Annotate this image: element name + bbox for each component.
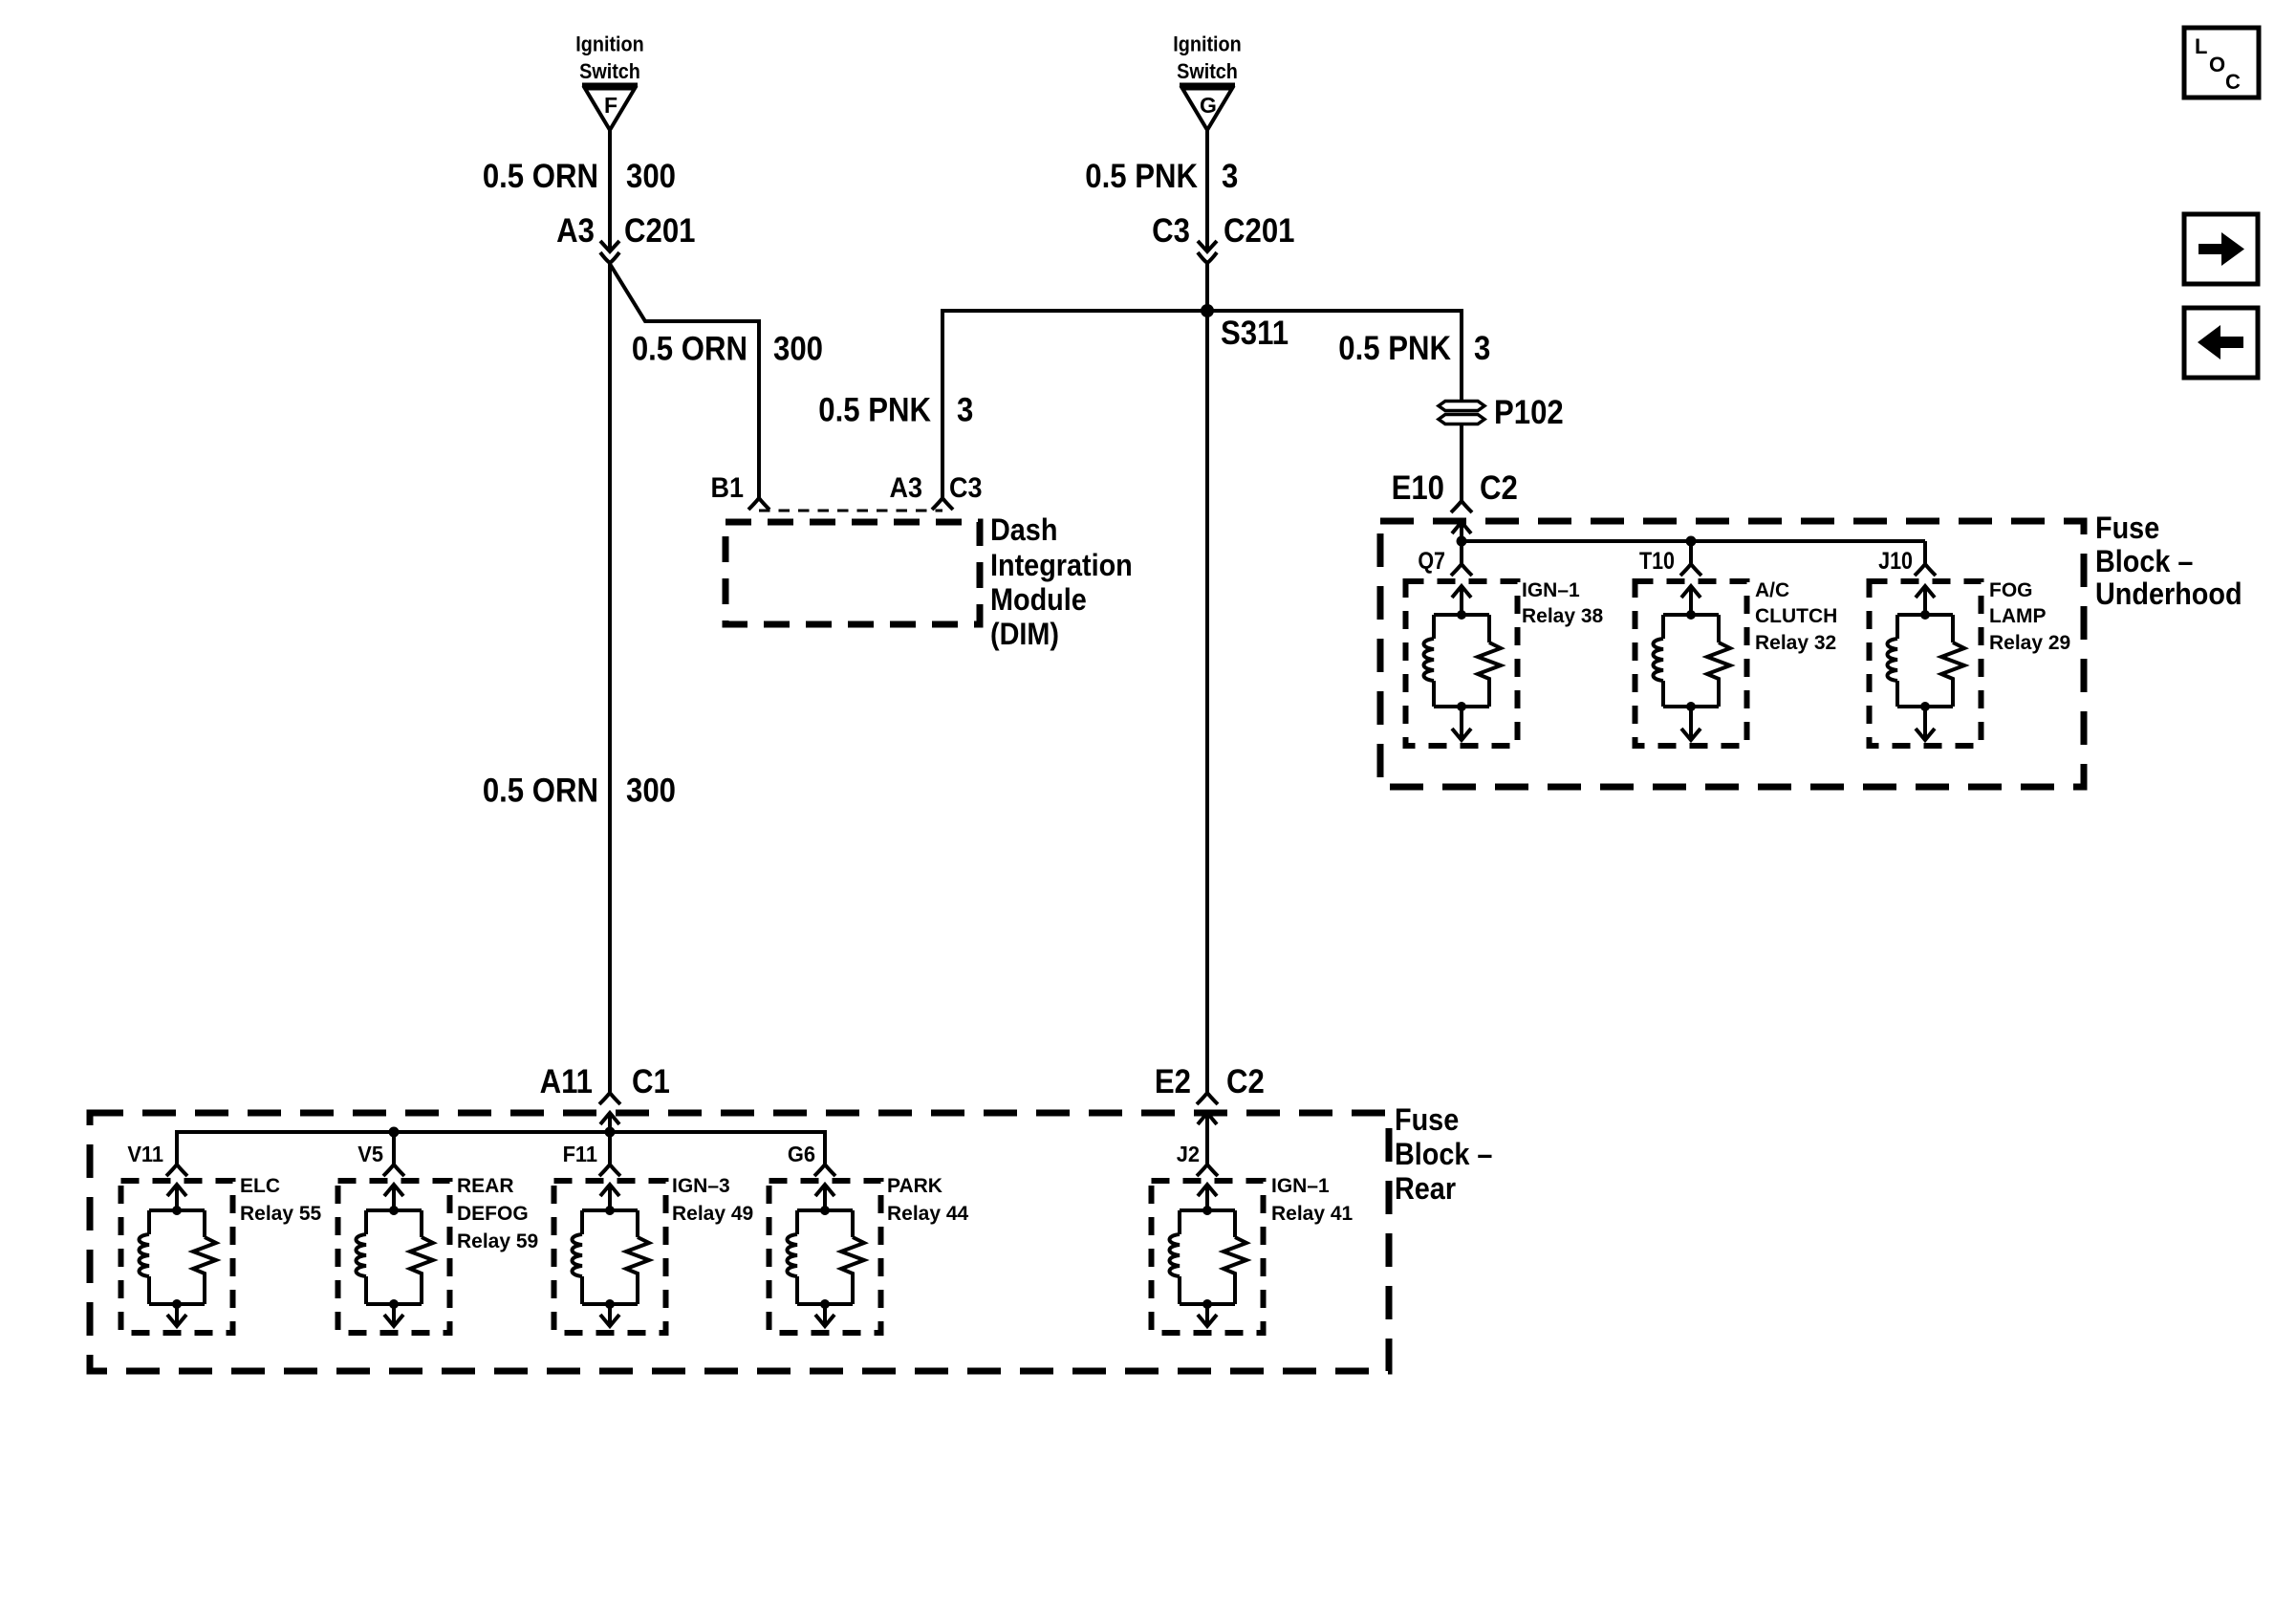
wire S311 to P102 [1207,311,1462,400]
svg-text:IGN–1: IGN–1 [1522,579,1580,601]
wire 0.5 PNK 3 from C201 through S311 down to E2 [1205,263,1209,1092]
svg-text:V11: V11 [127,1142,163,1166]
svg-text:PARK: PARK [887,1175,942,1197]
svg-text:F11: F11 [563,1142,597,1166]
svg-text:Relay 44: Relay 44 [887,1203,969,1225]
label IGN-3 Relay 49 [672,1175,753,1225]
off-page connector F (Ignition Switch feed) [582,85,638,131]
pin E10 female chevron [1451,501,1472,512]
svg-text:300: 300 [773,331,823,368]
svg-text:0.5 PNK: 0.5 PNK [818,392,931,429]
svg-text:A11: A11 [540,1063,593,1100]
pin Q7 chevron [1451,564,1472,576]
svg-text:Block –: Block – [2095,545,2193,579]
relay Rear Defog Relay 59 [338,1181,450,1333]
svg-text:Integration: Integration [990,549,1133,583]
label Ignition Switch (middle) [1173,33,1241,84]
connector C201 (middle, male arrow + female chevron) [1198,241,1217,263]
arrow box left [2184,308,2258,378]
pass-through grommet P102 [1439,402,1484,425]
svg-text:IGN–1: IGN–1 [1271,1175,1330,1197]
wire 0.5 PNK 3 from G to C201 [1205,130,1209,251]
svg-text:DEFOG: DEFOG [457,1203,529,1225]
off-page connector G (Ignition Switch feed) [1180,85,1235,131]
svg-text:IGN–3: IGN–3 [672,1175,730,1197]
pin E2 female chevron [1197,1093,1218,1104]
svg-text:CLUTCH: CLUTCH [1755,605,1837,627]
svg-text:Ignition: Ignition [1173,33,1241,56]
junction dot at T10 feed [1686,536,1697,547]
svg-text:C2: C2 [1226,1063,1265,1100]
relay ELC Relay 55 [121,1181,233,1333]
svg-text:Q7: Q7 [1418,547,1445,574]
svg-text:0.5 PNK: 0.5 PNK [1338,330,1451,367]
label pins C3 / C201 [1152,212,1294,250]
pin V5 chevron [383,1165,404,1176]
wire branch to DIM B1 [610,264,759,498]
svg-text:FOG: FOG [1989,579,2033,601]
pin V11 chevron [166,1165,187,1176]
svg-text:300: 300 [626,158,676,195]
label 0.5 PNK 3 (top middle) [1085,158,1238,195]
svg-text:ELC: ELC [240,1175,280,1197]
svg-text:J10: J10 [1878,547,1913,574]
relay IGN-1 Relay 38 [1406,581,1518,746]
arrow box right [2184,214,2258,284]
svg-text:Relay 55: Relay 55 [240,1203,322,1225]
label 0.5 PNK 3 (right) [1338,330,1490,367]
svg-text:G: G [1200,93,1217,118]
svg-text:3: 3 [957,392,973,429]
svg-text:0.5 ORN: 0.5 ORN [632,331,747,368]
svg-text:C201: C201 [624,212,695,250]
svg-text:P102: P102 [1494,394,1564,431]
svg-text:E2: E2 [1155,1063,1191,1100]
label Ignition Switch (left) [575,33,643,84]
svg-text:Fuse: Fuse [1395,1103,1459,1138]
pin T10 chevron [1680,564,1701,576]
svg-text:Relay 38: Relay 38 [1522,605,1604,627]
svg-text:T10: T10 [1639,547,1675,574]
svg-text:A/C: A/C [1755,579,1789,601]
svg-text:L: L [2195,34,2207,58]
label 0.5 ORN 300 (mid left) [483,773,676,810]
relay Fog Lamp Relay 29 [1870,581,1982,746]
svg-text:Relay 29: Relay 29 [1989,632,2070,654]
relay IGN-3 Relay 49 [554,1181,666,1333]
label Fuse Block - Underhood [2095,512,2242,612]
label pins A3 / C3 at DIM [890,472,983,505]
wire 0.5 ORN 300 from C201 down to A11 [608,263,612,1092]
svg-text:Fuse: Fuse [2095,512,2159,546]
svg-text:C2: C2 [1480,469,1518,507]
label pins E10 / C2 [1392,469,1518,507]
svg-text:C3: C3 [949,472,982,505]
pin arrow into rear block at E2 [1198,1113,1217,1132]
svg-text:Switch: Switch [1177,60,1238,83]
splice S311 [1201,304,1214,317]
pin arrow into underhood block [1452,522,1471,541]
svg-text:C201: C201 [1224,212,1294,250]
junction dot at Q7 feed [1457,536,1467,547]
label 0.5 ORN 300 (branch) [632,331,823,368]
label 0.5 PNK 3 (to DIM) [818,392,973,429]
label PARK Relay 44 [887,1175,969,1225]
wire 0.5 ORN 300 from F to C201 [608,130,612,251]
wire S311 to DIM C3 [942,311,1207,498]
label pins E2 / C2 [1155,1063,1265,1100]
label REAR DEFOG Relay 59 [457,1175,538,1252]
svg-text:G6: G6 [788,1142,815,1166]
svg-text:A3: A3 [890,472,922,505]
pin J10 chevron [1915,564,1936,576]
svg-text:J2: J2 [1177,1142,1200,1166]
svg-text:Rear: Rear [1395,1172,1456,1207]
Fuse Block Underhood box [1380,521,2084,787]
junction dot below A11 [605,1127,616,1138]
svg-text:A3: A3 [556,212,595,250]
relay Park Relay 44 [769,1181,881,1333]
svg-text:V5: V5 [357,1142,383,1166]
connector C201 (left, male arrow + female chevron) [600,241,619,263]
label A/C CLUTCH Relay 32 [1755,579,1837,654]
wire P102 to E10 [1460,425,1463,501]
svg-text:Relay 32: Relay 32 [1755,632,1836,654]
label pins A11 / C1 [540,1063,670,1100]
svg-text:0.5 PNK: 0.5 PNK [1085,158,1198,195]
junction dot at V5 [389,1127,400,1138]
svg-text:0.5 ORN: 0.5 ORN [483,773,598,810]
label ELC Relay 55 [240,1175,322,1225]
label FOG LAMP Relay 29 [1989,579,2070,654]
relay A/C Clutch Relay 32 [1635,581,1747,746]
svg-text:Switch: Switch [579,60,640,83]
svg-text:Relay 49: Relay 49 [672,1203,753,1225]
wire rear distribution [177,1132,825,1164]
label IGN-1 Relay 38 [1522,579,1604,627]
label Fuse Block - Rear [1395,1103,1492,1207]
pin B1 female chevron [748,498,769,510]
pin A3/C3 female chevron [932,498,953,510]
svg-text:Relay 59: Relay 59 [457,1230,538,1252]
svg-text:Ignition: Ignition [575,33,643,56]
svg-text:B1: B1 [711,472,745,505]
svg-text:3: 3 [1222,158,1238,195]
wire underhood distribution [1462,541,1925,563]
svg-text:C3: C3 [1152,212,1190,250]
label IGN-1 Relay 41 [1271,1175,1354,1225]
svg-text:LAMP: LAMP [1989,605,2047,627]
dashed connector line B1-A3 at DIM [759,510,942,512]
relay IGN-1 Relay 41 [1152,1181,1264,1333]
svg-text:Relay 41: Relay 41 [1271,1203,1354,1225]
pin J2 chevron [1197,1165,1218,1176]
svg-text:Underhood: Underhood [2095,577,2242,612]
svg-text:Dash: Dash [990,513,1057,548]
svg-text:Block –: Block – [1395,1138,1492,1172]
svg-text:C: C [2225,70,2241,94]
wire E2 to J2 [1205,1132,1209,1164]
svg-text:(DIM): (DIM) [990,618,1059,652]
svg-text:S311: S311 [1221,315,1289,352]
label 0.5 ORN 300 (top left) [483,158,676,195]
pin A11 female chevron [599,1093,620,1104]
LOC reference box [2184,28,2259,98]
svg-text:Module: Module [990,583,1087,618]
svg-text:F: F [604,93,617,118]
pin arrow into rear block at A11 [600,1113,619,1132]
svg-text:0.5 ORN: 0.5 ORN [483,158,598,195]
svg-text:300: 300 [626,773,676,810]
svg-text:O: O [2209,53,2225,76]
pin F11 chevron [599,1165,620,1176]
svg-text:E10: E10 [1392,469,1444,507]
svg-text:REAR: REAR [457,1175,514,1197]
Dash Integration Module box [726,522,980,624]
svg-text:3: 3 [1474,330,1490,367]
label pins A3 / C201 [556,212,695,250]
label Dash Integration Module (DIM) [990,513,1133,652]
svg-text:C1: C1 [632,1063,670,1100]
Fuse Block Rear box [90,1113,1389,1371]
pin G6 chevron [814,1165,835,1176]
